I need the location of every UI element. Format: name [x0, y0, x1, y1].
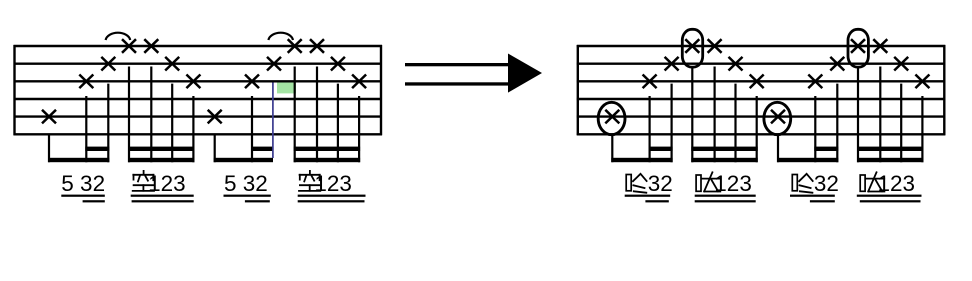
svg-text:123: 123: [148, 171, 186, 196]
svg-text:123: 123: [314, 171, 352, 196]
svg-text:123: 123: [714, 171, 752, 196]
svg-text:123: 123: [878, 171, 916, 196]
svg-text:5 32: 5 32: [61, 171, 105, 196]
svg-text:32: 32: [648, 171, 673, 196]
svg-text:5 32: 5 32: [224, 171, 268, 196]
svg-text:32: 32: [814, 171, 839, 196]
